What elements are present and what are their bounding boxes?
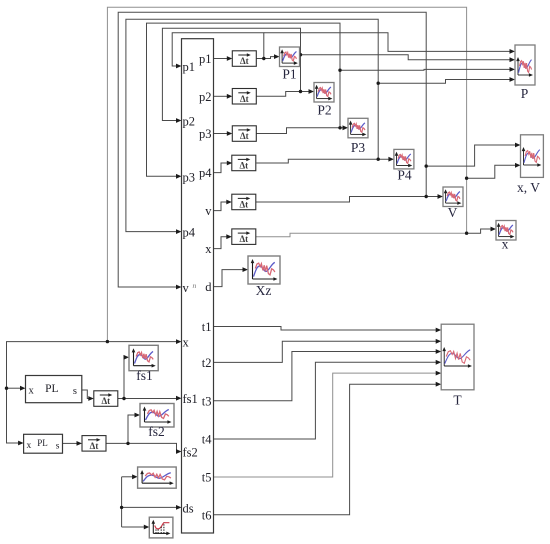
svg-text:p3: p3 xyxy=(183,170,196,184)
svg-text:P3: P3 xyxy=(351,140,366,155)
svg-text:Δt: Δt xyxy=(101,396,110,406)
svg-text:PL: PL xyxy=(37,438,48,448)
svg-text:ds: ds xyxy=(183,501,194,515)
svg-text:fs1: fs1 xyxy=(183,392,198,406)
svg-text:P1: P1 xyxy=(282,67,296,82)
svg-text:x: x xyxy=(183,336,190,350)
svg-text:x, V: x, V xyxy=(517,180,540,195)
svg-text:v: v xyxy=(205,204,212,218)
svg-text:s: s xyxy=(56,442,60,452)
svg-text:Δt: Δt xyxy=(239,160,248,170)
svg-text:V: V xyxy=(448,205,458,220)
svg-text:p4: p4 xyxy=(183,226,196,240)
svg-text:t1: t1 xyxy=(202,320,212,334)
svg-text:t4: t4 xyxy=(202,433,212,447)
svg-text:p1: p1 xyxy=(199,52,212,66)
svg-text:d: d xyxy=(205,280,212,294)
svg-text:Δt: Δt xyxy=(240,56,249,66)
svg-text:n: n xyxy=(193,281,197,290)
svg-text:x: x xyxy=(27,441,32,451)
svg-text:t3: t3 xyxy=(202,394,212,408)
svg-text:x: x xyxy=(29,386,35,397)
svg-text:x: x xyxy=(205,242,212,256)
svg-text:P2: P2 xyxy=(317,103,331,118)
svg-text:fs2: fs2 xyxy=(148,424,165,439)
svg-text:t5: t5 xyxy=(202,471,212,485)
svg-text:p3: p3 xyxy=(199,127,212,141)
svg-text:Δt: Δt xyxy=(239,199,248,209)
svg-text:v: v xyxy=(183,281,190,295)
svg-text:P: P xyxy=(521,86,529,101)
svg-text:Xz: Xz xyxy=(256,283,272,298)
svg-text:fs2: fs2 xyxy=(183,446,198,460)
svg-text:T: T xyxy=(453,393,462,408)
svg-text:fs1: fs1 xyxy=(136,368,153,383)
svg-text:p1: p1 xyxy=(183,60,196,74)
svg-text:x: x xyxy=(502,237,509,252)
svg-text:Δt: Δt xyxy=(240,131,249,141)
svg-text:p4: p4 xyxy=(199,166,212,180)
svg-text:Δt: Δt xyxy=(90,441,99,451)
svg-text:PL: PL xyxy=(45,383,58,395)
svg-text:t2: t2 xyxy=(202,356,212,370)
svg-text:Δt: Δt xyxy=(240,94,249,104)
svg-text:P4: P4 xyxy=(397,168,412,183)
svg-text:p2: p2 xyxy=(183,115,196,129)
svg-text:s: s xyxy=(73,386,77,397)
svg-text:p2: p2 xyxy=(199,90,212,104)
svg-text:t6: t6 xyxy=(202,508,212,522)
svg-text:Δt: Δt xyxy=(239,234,248,244)
